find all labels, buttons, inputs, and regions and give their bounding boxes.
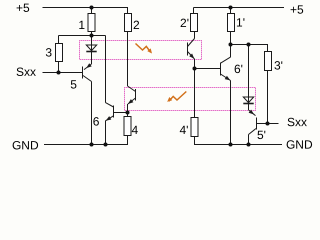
svg-text:GND: GND bbox=[286, 138, 313, 152]
svg-text:5': 5' bbox=[257, 128, 266, 142]
svg-text:1: 1 bbox=[78, 18, 85, 32]
svg-text:+5: +5 bbox=[16, 1, 30, 15]
svg-text:6: 6 bbox=[93, 114, 100, 128]
svg-text:3: 3 bbox=[45, 45, 52, 59]
svg-text:4': 4' bbox=[180, 123, 189, 137]
svg-text:+5: +5 bbox=[290, 3, 304, 17]
svg-text:1': 1' bbox=[236, 16, 245, 30]
svg-text:2: 2 bbox=[133, 18, 140, 32]
svg-text:5: 5 bbox=[70, 77, 77, 91]
svg-text:Sxx: Sxx bbox=[16, 65, 36, 79]
svg-text:6': 6' bbox=[234, 62, 243, 76]
svg-text:4: 4 bbox=[131, 123, 138, 137]
svg-text:GND: GND bbox=[12, 138, 39, 152]
svg-text:Sxx: Sxx bbox=[287, 115, 307, 129]
svg-text:2': 2' bbox=[180, 16, 189, 30]
svg-text:3': 3' bbox=[274, 59, 283, 73]
